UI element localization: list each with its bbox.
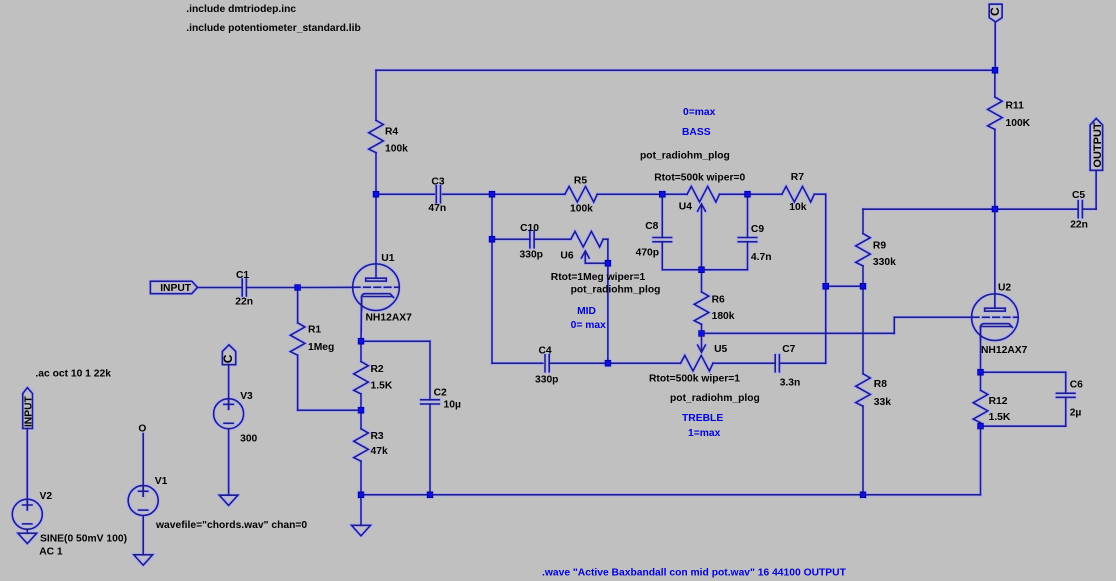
net flag C (top right) bbox=[989, 4, 1002, 22]
wire node to C10 bbox=[492, 238, 530, 240]
svg-text:U1: U1 bbox=[381, 253, 394, 264]
svg-text:pot_radiohm_plog: pot_radiohm_plog bbox=[571, 284, 661, 295]
svg-text:4.7n: 4.7n bbox=[751, 252, 772, 263]
U6 wiper arrow bbox=[581, 251, 589, 258]
svg-text:NH12AX7: NH12AX7 bbox=[981, 345, 1028, 356]
svg-text:pot_radiohm_plog: pot_radiohm_plog bbox=[670, 393, 760, 404]
svg-text:U6: U6 bbox=[560, 250, 573, 261]
wire link to R9 bottom node bbox=[826, 285, 863, 287]
wire U5 wiper stem bbox=[701, 333, 703, 351]
svg-text:R7: R7 bbox=[791, 172, 804, 183]
wire U6 wiper to right terminal bbox=[585, 262, 608, 264]
ground (V1) bbox=[134, 555, 153, 565]
capacitor C9 bbox=[738, 238, 757, 242]
junction node top rail/R11 bbox=[992, 67, 998, 73]
svg-text:U2: U2 bbox=[998, 282, 1011, 293]
resistor R7 bbox=[782, 186, 814, 202]
svg-text:C6: C6 bbox=[1070, 379, 1083, 390]
svg-text:.ac oct 10 1 22k: .ac oct 10 1 22k bbox=[35, 368, 111, 379]
potentiometer U6 body bbox=[571, 231, 603, 247]
svg-text:R5: R5 bbox=[574, 175, 587, 186]
capacitor C7 bbox=[775, 355, 779, 372]
junction node U2 cathode/R12/C6 bbox=[978, 369, 984, 375]
wire R2 bottom lead bbox=[360, 394, 362, 410]
wire C9 top lead bbox=[747, 194, 749, 237]
wire ground stem bbox=[360, 495, 362, 526]
svg-text:TREBLE: TREBLE bbox=[682, 413, 723, 424]
wire C1 to node bbox=[246, 287, 297, 289]
svg-text:INPUT: INPUT bbox=[24, 395, 35, 427]
resistor R6 bbox=[694, 292, 709, 324]
wire C6 bottom lead bbox=[1065, 397, 1067, 426]
svg-text:R11: R11 bbox=[1006, 100, 1025, 111]
wire R9 node to R8 bbox=[862, 286, 864, 374]
svg-text:V2: V2 bbox=[40, 491, 53, 502]
svg-text:R4: R4 bbox=[385, 126, 398, 137]
junction node R6/U5 wiper/grid bbox=[699, 331, 705, 337]
wire C9 bottom lead bbox=[747, 242, 749, 270]
triode U2 bbox=[972, 294, 1019, 341]
wire R9 top lead bbox=[862, 209, 864, 233]
wire top supply rail bbox=[376, 69, 995, 71]
junction node C8 top bbox=[659, 191, 665, 197]
capacitor C8 bbox=[653, 238, 672, 242]
resistor R8 bbox=[856, 374, 871, 406]
potentiometer U4 body bbox=[687, 186, 719, 202]
svg-text:MID: MID bbox=[577, 306, 596, 317]
svg-text:100k: 100k bbox=[385, 143, 408, 154]
wire net C flag to top rail bbox=[994, 22, 996, 70]
wire R11 bottom lead bbox=[994, 129, 996, 209]
svg-text:OUTPUT: OUTPUT bbox=[1092, 122, 1104, 168]
junction node R11/C5/U2 plate bbox=[992, 206, 998, 212]
svg-text:1=max: 1=max bbox=[688, 428, 721, 439]
wire to R7 bbox=[748, 193, 782, 195]
wire node to C3 bbox=[376, 193, 434, 195]
net flag INPUT (horizontal) bbox=[150, 281, 197, 293]
wire INPUT flag to C1 bbox=[199, 287, 243, 289]
junction node R12/C6 bottom bbox=[978, 423, 984, 429]
svg-text:Rtot=1Meg wiper=1: Rtot=1Meg wiper=1 bbox=[551, 272, 646, 283]
wire U1 plate lead bbox=[375, 194, 377, 278]
voltage source V2 bbox=[12, 499, 42, 529]
resistor R12 bbox=[973, 390, 988, 422]
svg-text:AC 1: AC 1 bbox=[39, 546, 63, 557]
wire U5 to C7 bbox=[713, 362, 775, 364]
resistor R2 bbox=[354, 362, 369, 394]
junction node C1/R1/grid bbox=[295, 285, 301, 291]
svg-text:R8: R8 bbox=[874, 379, 887, 390]
capacitor C3 bbox=[436, 186, 440, 203]
ground (V3) bbox=[219, 495, 238, 505]
wire node to U1 grid bbox=[298, 286, 353, 288]
junction node R7 drop link bbox=[823, 283, 829, 289]
svg-text:U5: U5 bbox=[714, 344, 727, 355]
wire U1 cathode lead bbox=[360, 297, 363, 342]
wire R6 top lead bbox=[701, 270, 703, 292]
wire C7 right lead bbox=[779, 362, 825, 364]
svg-text:.wave "Active Baxbandall con m: .wave "Active Baxbandall con mid pot.wav… bbox=[542, 568, 847, 579]
wire R12 top lead bbox=[980, 372, 982, 390]
capacitor C6 bbox=[1056, 393, 1075, 397]
svg-text:C3: C3 bbox=[431, 176, 444, 187]
svg-text:C9: C9 bbox=[751, 224, 764, 235]
wire to OUTPUT flag bbox=[1095, 170, 1097, 209]
wire V3 to ground bbox=[228, 429, 230, 495]
svg-text:470p: 470p bbox=[636, 248, 659, 259]
svg-text:pot_radiohm_plog: pot_radiohm_plog bbox=[640, 150, 730, 161]
wire C6 top lead bbox=[1065, 372, 1067, 393]
wire R7 right lead bbox=[814, 193, 825, 195]
wire net O to V1 bbox=[142, 434, 144, 497]
resistor R1 bbox=[290, 323, 305, 355]
svg-text:100K: 100K bbox=[1006, 118, 1031, 129]
svg-text:100k: 100k bbox=[570, 204, 593, 215]
svg-text:R6: R6 bbox=[712, 294, 725, 305]
wire cathode node to C6 bbox=[981, 371, 1066, 373]
svg-text:10µ: 10µ bbox=[444, 400, 461, 411]
svg-text:330k: 330k bbox=[873, 257, 896, 268]
wire to U4 left bbox=[662, 193, 687, 195]
svg-text:BASS: BASS bbox=[682, 127, 711, 138]
wire node to C5 bbox=[995, 208, 1078, 210]
junction node U1 cathode bbox=[358, 338, 364, 344]
wire V2 to ground bbox=[26, 529, 28, 533]
net flag C (at V3) bbox=[222, 345, 235, 365]
wire to C4 bbox=[492, 362, 543, 364]
wire R4 bottom lead bbox=[375, 153, 377, 195]
net flag INPUT (vertical at V2) bbox=[23, 388, 33, 429]
junction node U6 wiper tie bbox=[605, 260, 611, 266]
wire R12 bottom lead bbox=[980, 423, 982, 426]
wire INPUT flag to V2 bbox=[26, 429, 28, 510]
junction node U6/C4 row bbox=[605, 360, 611, 366]
wire C8 top lead bbox=[661, 194, 663, 237]
svg-text:O: O bbox=[138, 424, 146, 435]
svg-text:R9: R9 bbox=[873, 240, 886, 251]
svg-text:1.5K: 1.5K bbox=[989, 412, 1011, 423]
junction node R8/ground rail bbox=[860, 492, 866, 498]
svg-text:R1: R1 bbox=[308, 325, 321, 336]
wire R4 top lead bbox=[375, 70, 377, 120]
resistor R3 bbox=[354, 429, 369, 461]
wire C2 bottom lead bbox=[429, 404, 431, 495]
wire R3 bottom lead bbox=[360, 461, 362, 495]
ground (V2) bbox=[18, 533, 37, 543]
triode U1 bbox=[353, 264, 400, 311]
wire U6 drop to C4 row bbox=[607, 239, 609, 363]
junction node ground rail left bbox=[358, 492, 364, 498]
capacitor C5 bbox=[1078, 201, 1082, 218]
svg-text:C1: C1 bbox=[236, 270, 249, 281]
wire treble wiper to U2 grid run bbox=[702, 332, 895, 334]
svg-text:C7: C7 bbox=[782, 344, 795, 355]
svg-text:1Meg: 1Meg bbox=[308, 342, 334, 353]
voltage source V3 bbox=[214, 399, 244, 429]
wire C8 bottom lead bbox=[661, 242, 663, 270]
junction node R4/C3 bbox=[373, 191, 379, 197]
svg-text:C: C bbox=[988, 7, 1002, 16]
svg-text:C: C bbox=[221, 354, 235, 363]
svg-text:R2: R2 bbox=[371, 364, 384, 375]
wire R1 to R2/R3 node bbox=[298, 409, 361, 411]
potentiometer U5 body bbox=[681, 355, 713, 371]
svg-text:47k: 47k bbox=[371, 446, 388, 457]
svg-text:.include potentiometer_standar: .include potentiometer_standard.lib bbox=[186, 23, 360, 34]
wire U6 wiper stem bbox=[584, 252, 586, 263]
svg-text:1.5K: 1.5K bbox=[371, 381, 393, 392]
wire C2 top lead bbox=[429, 341, 431, 400]
wire U6 right lead bbox=[603, 238, 608, 240]
wire C10 to U6 bbox=[534, 238, 571, 240]
wire node to R5 bbox=[492, 193, 565, 195]
svg-text:0=max: 0=max bbox=[683, 107, 716, 118]
wire R8 bottom lead bbox=[862, 406, 864, 495]
svg-text:Rtot=500k wiper=1: Rtot=500k wiper=1 bbox=[649, 374, 740, 385]
wire C8-C9 bottom rail bbox=[662, 269, 747, 271]
svg-text:0= max: 0= max bbox=[571, 320, 606, 331]
svg-text:SINE(0 50mV 100): SINE(0 50mV 100) bbox=[40, 533, 127, 544]
net flag OUTPUT bbox=[1090, 118, 1103, 170]
junction node C2/rail bbox=[427, 492, 433, 498]
capacitor C4 bbox=[545, 355, 549, 372]
wire U4 right to C9 node bbox=[720, 193, 748, 195]
wire to U2 grid bbox=[894, 316, 971, 318]
svg-text:330p: 330p bbox=[520, 250, 543, 261]
wire R3 top lead bbox=[360, 410, 362, 429]
U5 wiper arrow bbox=[698, 345, 706, 352]
ground (main) bbox=[352, 525, 371, 535]
wire C6 bottom return bbox=[981, 425, 1066, 427]
svg-text:180k: 180k bbox=[712, 311, 735, 322]
junction node U4 wiper/R6 bbox=[699, 267, 705, 273]
svg-text:.include dmtriodep.inc: .include dmtriodep.inc bbox=[186, 4, 296, 15]
svg-text:C10: C10 bbox=[520, 223, 539, 234]
wire right drop R7 to C7 bbox=[825, 194, 827, 363]
svg-text:330p: 330p bbox=[535, 374, 558, 385]
voltage source V1 bbox=[128, 486, 158, 516]
wire R11 top lead bbox=[994, 70, 996, 97]
svg-text:300: 300 bbox=[240, 434, 257, 445]
resistor R9 bbox=[856, 234, 871, 266]
wire node to U5 bbox=[608, 362, 681, 364]
svg-text:22n: 22n bbox=[235, 296, 253, 307]
svg-text:10k: 10k bbox=[789, 202, 806, 213]
wire V1 to ground bbox=[142, 516, 144, 555]
U4 wiper arrow bbox=[698, 204, 706, 211]
wire C flag to V3 bbox=[228, 365, 230, 410]
resistor R11 bbox=[988, 97, 1003, 129]
wire R6 bottom lead bbox=[701, 324, 703, 333]
svg-text:V3: V3 bbox=[240, 391, 253, 402]
wire bottom ground rail bbox=[361, 494, 981, 496]
svg-text:NH12AX7: NH12AX7 bbox=[366, 313, 413, 324]
wire C5 right lead bbox=[1082, 208, 1096, 210]
svg-text:C5: C5 bbox=[1072, 190, 1085, 201]
capacitor C10 bbox=[530, 231, 534, 248]
svg-text:Rtot=500k wiper=0: Rtot=500k wiper=0 bbox=[654, 173, 745, 184]
svg-text:wavefile="chords.wav" chan=0: wavefile="chords.wav" chan=0 bbox=[155, 520, 307, 531]
wire R9 bottom lead bbox=[862, 266, 864, 286]
junction node C3/R5 bbox=[489, 191, 495, 197]
svg-text:U4: U4 bbox=[679, 202, 692, 213]
wire R1 top lead bbox=[297, 288, 299, 323]
svg-text:R3: R3 bbox=[371, 431, 384, 442]
wire C3 to node bbox=[443, 193, 492, 195]
junction node R9 bottom bbox=[860, 283, 866, 289]
resistor R5 bbox=[565, 186, 597, 202]
wire drop to ground rail bbox=[980, 426, 982, 495]
svg-text:C2: C2 bbox=[434, 387, 447, 398]
wire grid riser bbox=[893, 317, 895, 333]
junction node C9 top bbox=[745, 191, 751, 197]
svg-text:47n: 47n bbox=[428, 203, 446, 214]
svg-text:R12: R12 bbox=[989, 396, 1008, 407]
wire R1 bottom lead bbox=[297, 355, 299, 410]
wire U4 wiper stem bbox=[701, 205, 703, 270]
svg-text:C8: C8 bbox=[645, 221, 658, 232]
svg-text:3.3n: 3.3n bbox=[780, 378, 801, 389]
wire R2 top lead bbox=[360, 341, 362, 361]
wire C4 to node bbox=[549, 362, 608, 364]
svg-text:INPUT: INPUT bbox=[160, 283, 192, 294]
resistor R4 bbox=[369, 120, 384, 152]
wire U2 cathode lead bbox=[980, 327, 982, 373]
junction node C10 branch bbox=[489, 236, 495, 242]
svg-text:33k: 33k bbox=[874, 397, 891, 408]
wire R5 to C8 node bbox=[597, 193, 662, 195]
wire left drop to C4 row bbox=[491, 194, 493, 363]
svg-text:V1: V1 bbox=[155, 476, 168, 487]
svg-text:2µ: 2µ bbox=[1070, 407, 1082, 418]
capacitor C2 bbox=[421, 400, 440, 404]
wire U2 plate lead bbox=[994, 209, 996, 308]
wire cathode to C2 bbox=[361, 340, 430, 342]
junction node R2/R3/R1 bbox=[358, 407, 364, 413]
capacitor C1 bbox=[242, 279, 246, 296]
svg-text:22n: 22n bbox=[1070, 220, 1088, 231]
svg-text:C4: C4 bbox=[539, 345, 552, 356]
wire mid row R9 to node bbox=[863, 208, 995, 210]
